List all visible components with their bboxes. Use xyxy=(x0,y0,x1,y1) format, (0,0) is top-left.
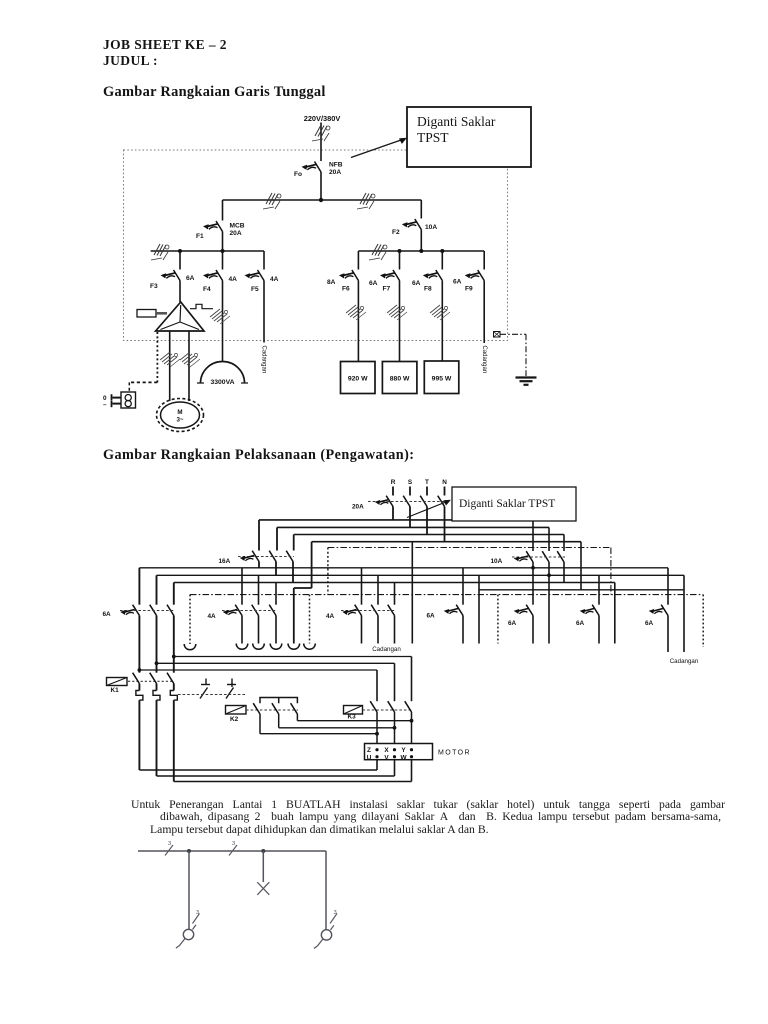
wire: K1 out 1 down xyxy=(138,700,140,770)
svg-text:20A: 20A xyxy=(329,169,341,176)
switch 4A#2 poles xyxy=(355,605,362,616)
wire: branch3 N xyxy=(614,583,616,644)
K2 out rail 1 xyxy=(260,733,377,735)
svg-text:4A: 4A xyxy=(326,613,335,620)
switch 10A poles xyxy=(526,551,533,562)
rail R xyxy=(259,519,533,521)
MOTOR terminal box xyxy=(365,744,433,760)
wire: 16A pole2 out xyxy=(275,562,277,576)
feeder drop 3 xyxy=(173,583,175,605)
pushbutton terminals xyxy=(113,397,122,399)
switch 4A#1 poles xyxy=(235,605,242,616)
wire: branch1 L out xyxy=(462,616,464,644)
wire: left sub-bus xyxy=(151,250,264,252)
conductor-count slash on switch A leg xyxy=(193,914,200,924)
dashed control run from starter xyxy=(156,332,158,382)
wire: drop to F2 xyxy=(420,200,422,219)
wire: branch3 L drop xyxy=(598,575,600,604)
switch 16A poles xyxy=(252,551,259,562)
svg-text:F5: F5 xyxy=(251,286,259,293)
callout arrow to box xyxy=(407,502,447,518)
switch A (saklar tukar) xyxy=(183,929,193,939)
svg-text:Cadangan: Cadangan xyxy=(372,646,401,653)
wire: branch2 L out xyxy=(532,616,534,644)
K2 outputs down xyxy=(260,714,297,734)
bottom rail V xyxy=(157,775,395,777)
svg-text:3: 3 xyxy=(232,841,235,847)
wire: 10A pole1 feed xyxy=(532,521,534,551)
terminal dots xyxy=(375,748,378,751)
4A#2 N drop xyxy=(411,542,413,644)
node K2-Y xyxy=(410,719,414,723)
K2 out rail 2 xyxy=(279,727,395,729)
svg-text:X: X xyxy=(384,747,389,754)
breaker F4 4A xyxy=(204,270,223,281)
node: bus tap xyxy=(319,198,323,202)
interlock NC contact 1 xyxy=(205,679,207,685)
svg-text:F8: F8 xyxy=(424,286,432,293)
wire: N drop xyxy=(444,507,446,542)
4A#1 gang dashed link xyxy=(222,610,276,612)
bus L2 xyxy=(157,574,685,576)
4A#1 outgoing wires xyxy=(242,616,276,644)
lighting group 4A#1 pole1 drop xyxy=(241,568,243,605)
hatch on left sub-bus xyxy=(151,244,169,260)
branch1 switch 6A xyxy=(456,605,463,616)
wire: K1 out 2 down xyxy=(156,700,158,776)
drop to lamp X xyxy=(262,851,264,882)
interlock dashed link xyxy=(178,694,246,696)
10A gang dashed link xyxy=(512,556,565,558)
rail T xyxy=(294,534,564,536)
4A#2 gang dashed link xyxy=(341,610,395,612)
transformer dome 3300VA xyxy=(201,362,245,384)
K2 star bridge xyxy=(260,698,297,704)
svg-text:6A: 6A xyxy=(427,613,436,620)
paragraph line 2 xyxy=(160,811,721,823)
branch2 switch 6A xyxy=(526,605,533,616)
node: K3 feed tap 3 xyxy=(172,655,176,659)
svg-text:4A: 4A xyxy=(270,276,279,283)
bus L3 xyxy=(174,582,615,584)
K3 outputs to motor xyxy=(377,712,412,744)
svg-text:S: S xyxy=(408,479,413,486)
paragraph line 3 xyxy=(150,824,489,836)
K2 gang dashed link xyxy=(246,709,298,711)
svg-text:F6: F6 xyxy=(342,286,350,293)
svg-text:Cadangan: Cadangan xyxy=(670,658,699,665)
wire: F3 to starter xyxy=(179,281,181,303)
svg-text:220V/380V: 220V/380V xyxy=(304,114,341,123)
drop to switch A xyxy=(188,851,190,929)
4A#1 pole3 drop xyxy=(275,583,277,605)
wire: branch4 N xyxy=(683,575,685,652)
svg-text:3~: 3~ xyxy=(176,417,183,424)
svg-text:6A: 6A xyxy=(508,620,517,627)
breaker Fo NFB 20A xyxy=(302,162,321,173)
wire: F2 to right sub-bus xyxy=(420,230,422,252)
svg-text:6A: 6A xyxy=(645,620,654,627)
svg-text:8A: 8A xyxy=(327,279,336,286)
svg-text:3300VA: 3300VA xyxy=(210,379,234,386)
interlock NC contact 2 xyxy=(231,679,233,685)
svg-text:F4: F4 xyxy=(203,286,211,293)
wire: NFB to bus xyxy=(320,172,322,200)
lighting group 4A#2 pole1 drop xyxy=(361,568,363,605)
svg-text:4A: 4A xyxy=(208,613,217,620)
branch3 switch 6A xyxy=(592,605,599,616)
wire: F8 to load xyxy=(441,281,443,362)
node: F8 tap xyxy=(440,249,444,253)
svg-text:M: M xyxy=(177,409,182,416)
wire: branch4 L drop xyxy=(667,568,669,605)
conductor-count slash on switch B leg xyxy=(330,914,337,924)
hatch: 4-wire mark on feed xyxy=(312,125,330,141)
6A trip arrow xyxy=(121,610,135,615)
svg-text:F1: F1 xyxy=(196,233,204,240)
supply stubs R S T N xyxy=(392,487,394,496)
svg-text:TPST: TPST xyxy=(417,130,449,145)
K2 out rail 3 xyxy=(297,720,411,722)
wire: F9 spare xyxy=(483,281,485,344)
wire: top distribution bus xyxy=(223,199,422,201)
svg-text:Diganti Saklar: Diganti Saklar xyxy=(417,114,496,129)
svg-text:NFB: NFB xyxy=(329,162,343,169)
PE upper dash-dot rail xyxy=(328,547,611,549)
scribble on feed left xyxy=(160,352,180,367)
wire: R drop xyxy=(392,507,394,520)
20A trip arrow xyxy=(375,500,389,505)
svg-text:F3: F3 xyxy=(150,283,158,290)
wire: branch2 L xyxy=(532,568,534,605)
terminal hump PE1 xyxy=(184,644,196,650)
wire: T rail to 16A xyxy=(293,535,295,551)
node: K3 feed tap 1 xyxy=(138,668,142,672)
bus N right xyxy=(479,589,684,591)
conductor-count slash 2 xyxy=(229,845,237,856)
svg-text:Diganti Saklar TPST: Diganti Saklar TPST xyxy=(459,498,555,510)
heading: Gambar Rangkaian Pelaksanaan (Pengawatan): xyxy=(103,447,414,464)
title: JUDUL : xyxy=(103,53,158,69)
PE dash-dot drop left xyxy=(327,548,329,595)
node: K3 feed tap 2 xyxy=(155,661,159,665)
node: F3 tap xyxy=(178,249,182,253)
overload element 3 xyxy=(170,691,177,701)
svg-text:16A: 16A xyxy=(219,558,231,565)
wire: F4 branch upper xyxy=(222,251,224,270)
K1 gang dotted link xyxy=(128,680,174,682)
scribble F7 xyxy=(387,305,407,320)
overload element 1 xyxy=(136,691,143,701)
wire: feeder 1 to K1 xyxy=(138,616,140,673)
wire: right sub-bus xyxy=(358,250,484,252)
wire: branch1 L drop xyxy=(462,568,464,605)
contactor K2 coil xyxy=(226,706,247,715)
switch B (saklar tukar) xyxy=(321,930,331,940)
4A#2 outgoing wires xyxy=(362,616,395,644)
wire: S rail to 16A xyxy=(276,527,278,550)
wire: branch1 N xyxy=(478,575,480,643)
K3 feed rail c xyxy=(139,669,377,671)
svg-text:Z: Z xyxy=(367,747,371,754)
wire: 10A pole1 to L1 xyxy=(532,562,534,568)
16A gang dashed link xyxy=(238,556,294,558)
svg-text:Cadangan: Cadangan xyxy=(260,346,266,374)
4A#2 pole2 drop xyxy=(377,575,379,604)
20A gang dashed link xyxy=(368,501,446,503)
svg-text:T: T xyxy=(425,479,429,486)
wire: F9 branch xyxy=(483,251,485,270)
rail N xyxy=(312,541,581,543)
wire: F8 branch xyxy=(441,251,443,270)
PE lower dash-dot rail xyxy=(190,594,703,596)
breaker F8 6A xyxy=(424,270,443,281)
drop to switch B xyxy=(325,851,327,930)
wire: F4 to 3300VA load xyxy=(222,281,224,363)
wire: incoming feed xyxy=(320,123,322,162)
K3 feed drop c xyxy=(376,670,378,701)
feeder drop 2 xyxy=(156,575,158,604)
wire: T drop xyxy=(426,507,428,535)
contactor K1 coil xyxy=(107,678,128,686)
K3 gang dashed link xyxy=(363,709,413,711)
wire: branch4 L out xyxy=(667,616,669,653)
switch 20A TPST poles xyxy=(386,496,393,507)
branch4 switch 6A xyxy=(661,605,668,616)
rail S xyxy=(277,526,549,528)
4A#2 trip arrow xyxy=(343,610,357,615)
K1 contact outputs xyxy=(139,684,173,691)
wire: N bypass drop xyxy=(294,542,312,644)
svg-text:880 W: 880 W xyxy=(390,376,410,383)
svg-text:K2: K2 xyxy=(230,716,239,723)
node: F7 tap xyxy=(398,249,402,253)
wire: F7 branch xyxy=(399,251,401,270)
node on L1 xyxy=(531,566,535,570)
breaker F2 10A xyxy=(403,219,422,230)
load box 880 W xyxy=(382,362,417,394)
wire: 16A pole1 out xyxy=(258,562,260,568)
bottom rail W xyxy=(174,781,412,783)
bottom rail U xyxy=(139,769,377,771)
wire: 10A pole3 to L3 xyxy=(563,562,565,583)
4A#1 pole2 drop xyxy=(258,575,260,604)
wire: 10A pole2 feed xyxy=(548,527,550,551)
svg-text:6A: 6A xyxy=(576,620,585,627)
load box 995 W xyxy=(424,361,459,394)
node K2-X xyxy=(393,726,397,730)
svg-text:4A: 4A xyxy=(229,276,238,283)
wire: feeder 2 to K1 xyxy=(156,616,158,673)
svg-text:10A: 10A xyxy=(425,224,437,231)
4A#2 pole3 drop xyxy=(394,583,396,605)
overload element 2 xyxy=(153,691,160,701)
svg-text:Fo: Fo xyxy=(294,171,302,178)
svg-text:V: V xyxy=(384,754,389,761)
node K2-Z xyxy=(375,732,379,736)
svg-text:6A: 6A xyxy=(103,611,112,618)
wire: F6 branch xyxy=(357,251,359,270)
node lamp A xyxy=(187,849,191,853)
node: F2 tap xyxy=(419,249,423,253)
wire: 16A pole3 out xyxy=(292,562,294,583)
wire: N rail drop to N bus xyxy=(580,542,582,590)
svg-text:Y: Y xyxy=(401,747,406,754)
PE dash-dot run xyxy=(500,334,526,376)
PE dotted drop group3 xyxy=(497,595,499,644)
6A gang dashed link xyxy=(120,610,174,612)
svg-text:F2: F2 xyxy=(392,229,400,236)
riser to motor U xyxy=(376,760,378,770)
scribble F6 xyxy=(346,305,366,320)
svg-text:6A: 6A xyxy=(369,280,378,287)
svg-text:3: 3 xyxy=(168,841,171,847)
svg-text:F7: F7 xyxy=(383,286,391,293)
hatch on right bus xyxy=(357,193,375,209)
wire: F5 spare xyxy=(263,281,265,343)
K3 feed drop a xyxy=(411,657,413,702)
breaker F6 8A xyxy=(340,270,359,281)
svg-text:6A: 6A xyxy=(186,275,195,282)
starter handle shaft xyxy=(156,312,167,315)
PE dotted drop right end xyxy=(702,595,704,647)
wire: F7 to load xyxy=(399,281,401,362)
svg-text:W: W xyxy=(400,754,407,761)
wire: drop to F1 xyxy=(222,200,224,221)
wire: F6 to load xyxy=(357,281,359,362)
callout box Diganti Saklar TPST xyxy=(407,107,531,167)
load box 920 W xyxy=(341,362,376,394)
svg-text:R: R xyxy=(391,479,396,486)
node: F1 tap xyxy=(221,249,225,253)
lamp symbol X xyxy=(257,882,269,895)
breaker F3 6A xyxy=(161,270,180,281)
starter inner Y xyxy=(161,305,200,330)
wire: motor feed left xyxy=(169,331,171,401)
bus L1 xyxy=(139,567,668,569)
terminal humps group1 xyxy=(236,644,315,650)
node on L2 xyxy=(547,573,551,577)
dashed panel enclosure xyxy=(124,150,508,341)
4A#1 trip arrow xyxy=(223,610,237,615)
breaker F9 6A xyxy=(465,270,484,281)
svg-text:N: N xyxy=(442,479,447,486)
10A trip arrow xyxy=(514,556,528,561)
motor-control feeder drop 1 xyxy=(138,568,140,605)
heading: Gambar Rangkaian Garis Tunggal xyxy=(103,84,326,101)
hatch on right sub-bus xyxy=(369,244,387,260)
svg-text:6A: 6A xyxy=(453,279,462,286)
scribble F8 xyxy=(430,305,450,320)
title: JOB SHEET KE - 2 xyxy=(103,37,227,53)
PE dotted drop group2 xyxy=(309,595,311,644)
svg-text:10A: 10A xyxy=(491,558,503,565)
wire: F5 branch upper xyxy=(263,251,265,270)
contactor K3 coil xyxy=(344,706,363,715)
cable scribble near F4 xyxy=(210,309,230,324)
motor M 3~ body xyxy=(161,402,200,428)
breaker F1 MCB 20A xyxy=(204,221,223,232)
starter position notch xyxy=(190,304,213,308)
wire: K1 out 3 down xyxy=(173,700,175,781)
K3 feed rail b xyxy=(157,662,395,664)
svg-text:920 W: 920 W xyxy=(348,376,368,383)
svg-text:K1: K1 xyxy=(111,687,120,694)
svg-text:995 W: 995 W xyxy=(432,376,452,383)
switch 6A motor group poles xyxy=(133,605,140,616)
conductor-count slash 1 xyxy=(165,845,173,856)
control pushbutton box xyxy=(121,392,136,408)
svg-text:3: 3 xyxy=(196,910,199,916)
svg-text:F9: F9 xyxy=(465,286,473,293)
16A trip arrow xyxy=(240,556,254,561)
K3 feed drop b xyxy=(394,663,396,701)
K3 feed rail a xyxy=(174,656,412,658)
svg-text:20A: 20A xyxy=(230,230,242,237)
svg-text:6A: 6A xyxy=(412,280,421,287)
wire: 10A pole2 through to branch2 N xyxy=(548,562,550,644)
PE dotted drop group1 xyxy=(189,595,191,644)
breaker F7 6A xyxy=(381,270,400,281)
wire: motor feed right xyxy=(188,331,190,401)
svg-text:MOTOR: MOTOR xyxy=(438,750,471,757)
contactor K1 contacts xyxy=(133,673,140,684)
contactor K2 contacts xyxy=(253,703,260,714)
ceiling run xyxy=(138,850,326,852)
svg-text:MCB: MCB xyxy=(230,223,245,230)
riser to motor W xyxy=(411,760,413,782)
node lamp B xyxy=(261,849,265,853)
hatch on left bus xyxy=(263,193,281,209)
svg-text:3: 3 xyxy=(334,910,337,916)
callout box Diganti Saklar TPST xyxy=(452,487,576,521)
wire: branch3 L out xyxy=(598,616,600,644)
wire: feeder 3 to K1 xyxy=(173,616,175,673)
star-delta starter triangle xyxy=(156,302,204,331)
wire: 10A pole3 feed xyxy=(563,535,565,552)
PE takeoff box xyxy=(494,332,501,338)
svg-text:Cadangan: Cadangan xyxy=(481,346,487,374)
breaker F5 4A xyxy=(245,270,264,281)
riser to motor V xyxy=(394,760,396,776)
contactor K3 contacts xyxy=(370,701,377,712)
PE dash-dot drop right xyxy=(610,548,612,595)
svg-text:–: – xyxy=(103,402,107,409)
wire: S drop xyxy=(409,507,411,528)
wire: R rail to 16A xyxy=(258,520,260,551)
annotation arrow to TPST box xyxy=(351,140,403,158)
scribble on feed right xyxy=(180,352,200,367)
svg-text:K3: K3 xyxy=(348,714,357,721)
earth electrode symbol xyxy=(516,376,537,378)
paragraph line 1 xyxy=(131,799,725,811)
starter handle box xyxy=(137,310,156,318)
svg-text:20A: 20A xyxy=(352,504,364,511)
wire: F1 to sub-bus xyxy=(222,232,224,252)
svg-text:U: U xyxy=(367,754,372,761)
wire: F3 branch upper xyxy=(179,251,181,270)
motor M 3~ dashed boundary xyxy=(157,399,204,432)
